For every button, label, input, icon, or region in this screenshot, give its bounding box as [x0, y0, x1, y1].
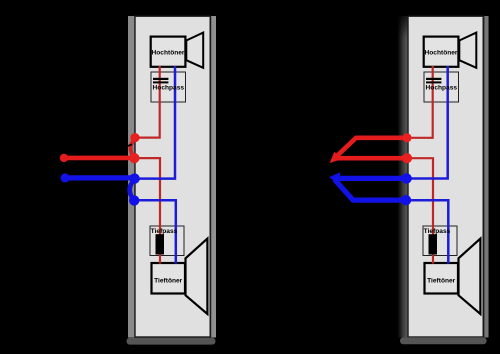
cable end lug red (left) — [60, 154, 68, 162]
wire red + : terminal1 to tweeter via high-pass (right) — [409, 66, 433, 138]
svg-text:Hochtöner: Hochtöner — [425, 50, 458, 57]
tweeter horn (left) — [186, 33, 203, 68]
speaker cable red 1 to tweeter terminal (right, with elbow) — [336, 138, 407, 157]
terminal 1 red (left) — [130, 133, 139, 142]
left cabinet side wall (left strip) — [128, 16, 134, 338]
inductor (black bar) in Tiefpass (right) — [429, 234, 438, 254]
speaker cable blue 2 to woofer terminal (right, with elbow) — [336, 181, 407, 201]
high-pass filter box Hochpass (left) — [151, 72, 186, 102]
arrowhead blue cable pair (right) — [329, 172, 340, 184]
woofer box Tieftöner (right) — [425, 263, 459, 294]
terminal 2 red (left) — [129, 153, 139, 163]
terminal 1 red (right) — [402, 133, 411, 142]
low-pass filter box Tiefpass (right) — [423, 226, 457, 256]
capacitor plate 1 in Hochpass (left) — [153, 78, 168, 80]
left cabinet body — [135, 16, 210, 337]
speaker cable red 2 to woofer terminal (right) — [337, 156, 407, 161]
jumper strap between blue terminals (left) — [130, 179, 135, 200]
right cabinet body — [408, 16, 483, 337]
terminal 3 blue (right) — [401, 173, 411, 183]
svg-text:Tieftöner: Tieftöner — [154, 277, 183, 284]
right cabinet base bar — [400, 337, 487, 344]
terminal 3 blue (left) — [129, 173, 139, 183]
terminal 4 blue (left) — [129, 195, 139, 205]
wire blue - : terminal4 down to woofer (right) — [409, 200, 448, 263]
wire blue - : terminal3 up to tweeter (left) — [136, 66, 175, 179]
tweeter horn (right) — [459, 33, 476, 68]
woofer horn (left) — [186, 239, 208, 314]
svg-text:Hochpass: Hochpass — [426, 85, 458, 92]
shadow fade at top of right cabinet side wall — [398, 16, 408, 38]
wire blue - : terminal3 up to tweeter (right) — [409, 66, 448, 179]
right cabinet side wall (right strip) — [484, 16, 488, 338]
small black pointer mark over red jumper (left) — [119, 144, 133, 149]
low-pass filter box Tiefpass (left) — [150, 226, 184, 256]
wire red + : terminal2 down to woofer via low-pass (right) — [409, 158, 433, 263]
svg-text:Tieftöner: Tieftöner — [427, 277, 456, 284]
capacitor plate 1 in Hochpass (right) — [426, 78, 441, 80]
terminal 2 red (right) — [402, 153, 412, 163]
svg-text:Hochpass: Hochpass — [153, 85, 185, 92]
woofer horn (right) — [459, 239, 481, 314]
svg-text:Tiefpass: Tiefpass — [151, 228, 178, 235]
left cabinet side wall (right strip) — [211, 16, 216, 338]
wire red + : terminal2 down to woofer via low-pass (left) — [136, 158, 160, 263]
speaker cable blue (left, thick) — [65, 175, 134, 180]
terminal 4 blue (right) — [401, 195, 411, 205]
arrowhead red cable pair (right) — [330, 152, 342, 163]
tweeter box Hochtöner (right) — [424, 37, 459, 67]
left cabinet base bar — [127, 338, 216, 345]
capacitor plate 2 in Hochpass (left) — [153, 81, 168, 83]
capacitor plate 2 in Hochpass (right) — [426, 81, 441, 83]
svg-text:Hochtöner: Hochtöner — [152, 50, 185, 57]
inductor (black bar) in Tiefpass (left) — [156, 234, 165, 254]
wire red + : terminal1 to tweeter via high-pass (left) — [136, 66, 160, 138]
woofer box Tieftöner (left) — [152, 263, 186, 294]
high-pass filter box Hochpass (right) — [424, 72, 459, 102]
right cabinet shadowed side wall (left strip, gradient) — [398, 16, 408, 338]
jumper strap between red terminals (left) — [131, 139, 135, 158]
speaker cable red (left, thick) — [64, 156, 133, 161]
cable end lug blue (left) — [61, 173, 70, 182]
speaker cable blue 1 to tweeter terminal (right) — [336, 176, 407, 181]
tweeter box Hochtöner (left) — [151, 37, 186, 67]
wire blue - : terminal4 down to woofer (left) — [136, 200, 176, 263]
svg-text:Tiefpass: Tiefpass — [424, 228, 451, 235]
